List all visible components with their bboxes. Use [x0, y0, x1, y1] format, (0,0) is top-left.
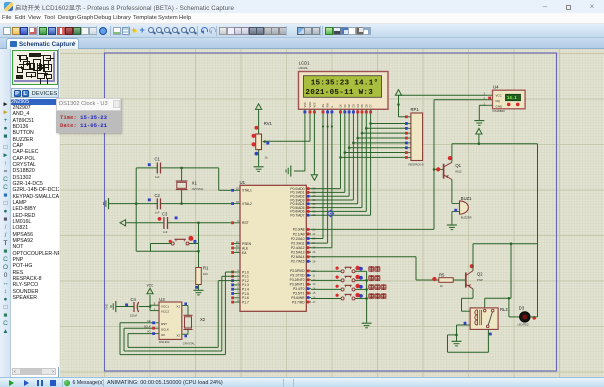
- svg-text:P2.0/A8: P2.0/A8: [293, 228, 305, 232]
- svg-text:14: 14: [312, 287, 315, 291]
- svg-text:VDD: VDD: [309, 102, 312, 107]
- svg-text:P1.7: P1.7: [242, 300, 249, 304]
- svg-text:P2.3/A11: P2.3/A11: [291, 241, 304, 245]
- U1 pin 37 P0.2: [290, 194, 316, 198]
- push button key2: [311, 275, 367, 282]
- transistor Q1 (8012 PNP): [436, 156, 462, 180]
- U1 pin 29 PSEN: [231, 240, 251, 246]
- svg-text:VEE: VEE: [314, 102, 317, 107]
- svg-text:25: 25: [312, 246, 315, 250]
- svg-text:P2.4/A12: P2.4/A12: [291, 246, 305, 250]
- svg-text:23: 23: [312, 237, 315, 241]
- crystal X1: [176, 168, 204, 204]
- svg-text:1uF: 1uF: [155, 210, 160, 214]
- wire U1 P2.6 to R5: [311, 257, 439, 280]
- svg-text:U1: U1: [240, 180, 246, 185]
- wire LCD D1 / U1 P0.1 / RP1 bus line: [311, 115, 406, 193]
- svg-text:14.1: 14.1: [507, 97, 517, 101]
- svg-text:P3.2/INT0: P3.2/INT0: [290, 278, 305, 282]
- resistor R1: [195, 265, 209, 288]
- svg-text:Q1: Q1: [455, 163, 461, 168]
- svg-text:ALE: ALE: [242, 246, 249, 250]
- svg-text:CRYSTAL: CRYSTAL: [183, 341, 196, 345]
- U1 pin 6 P1.5: [231, 290, 249, 296]
- svg-text:P2.7/A15: P2.7/A15: [291, 260, 305, 264]
- U1 pin 25 P2.4: [291, 246, 316, 250]
- wire GND to C4: [116, 306, 134, 308]
- wire Q1 collector to rail: [451, 144, 453, 163]
- svg-text:36: 36: [312, 198, 315, 202]
- svg-text:VCC1: VCC1: [161, 304, 169, 308]
- wire reset button left leg: [151, 244, 172, 252]
- svg-text:P3.5/T1: P3.5/T1: [293, 291, 305, 295]
- push button (reset): [169, 236, 197, 245]
- svg-text:18: 18: [236, 200, 239, 204]
- U1 pin 31 EA: [231, 249, 247, 255]
- svg-text:1k: 1k: [440, 284, 444, 288]
- svg-text:13: 13: [312, 282, 315, 286]
- svg-text:LED-RED: LED-RED: [518, 323, 529, 326]
- svg-text:C1: C1: [155, 156, 161, 161]
- wire relay coil to ground loop: [448, 325, 489, 352]
- wire C1 right to XTAL1: [161, 167, 234, 191]
- U1 pin 21 P2.0: [293, 227, 316, 231]
- RP1 pin 3: [405, 127, 411, 130]
- U1 pin 5 P1.4: [231, 285, 249, 291]
- U1 pin 8 P1.7: [231, 298, 249, 304]
- svg-text:22: 22: [312, 232, 315, 236]
- resistor R5: [432, 273, 453, 289]
- svg-text:X1: X1: [176, 305, 180, 309]
- crystal X2: [182, 303, 206, 346]
- svg-text:220uF: 220uF: [130, 313, 138, 317]
- U1 pin 10 P3.0: [290, 269, 316, 273]
- svg-text:100: 100: [203, 272, 208, 276]
- label key1: [369, 266, 380, 272]
- svg-text:CRYSTAL: CRYSTAL: [192, 187, 204, 191]
- U1 pin 12 P3.2: [290, 278, 316, 282]
- push button key1: [311, 266, 367, 273]
- ground (BUZ1): [447, 225, 457, 230]
- RP1 pin 2: [405, 122, 411, 125]
- svg-text:P2.1/A9: P2.1/A9: [293, 232, 305, 236]
- LED D3 (LED-RED): [518, 305, 536, 326]
- svg-text:35: 35: [312, 202, 315, 206]
- svg-text:30: 30: [236, 244, 239, 248]
- U1 pin 17 P3.7: [292, 300, 316, 304]
- RP1 pin 9: [405, 156, 411, 159]
- wire keys common vertical to ground: [365, 271, 368, 322]
- svg-text:RV1: RV1: [264, 121, 273, 126]
- wire C4 to U3 VCC pins: [139, 295, 159, 311]
- U1 pin 15 P3.5: [293, 291, 316, 295]
- RP1 pin 8: [405, 151, 411, 154]
- ground (R1): [194, 290, 204, 295]
- svg-text:15: 15: [312, 291, 315, 295]
- svg-text:C3: C3: [162, 212, 168, 217]
- wire VCC rail to U4 VCC: [399, 94, 487, 96]
- svg-text:39: 39: [312, 187, 315, 191]
- U1 pin 38 P0.1: [290, 190, 316, 194]
- svg-text:X1: X1: [192, 180, 198, 185]
- U1 pin 11 P3.1: [290, 273, 315, 277]
- wire Q2 emitter to relay coil: [462, 289, 474, 311]
- U3 pin SCLK: [144, 324, 159, 329]
- U1 pin 30 ALE: [231, 244, 249, 250]
- RP1 pin 1: [405, 115, 411, 118]
- RP1 pin 4: [405, 132, 411, 135]
- power VCC arrow (U3): [147, 284, 154, 294]
- RP1 pin 5: [405, 137, 411, 140]
- power VCC arrow above RV1: [256, 104, 262, 134]
- wire C2 right to XTAL2: [161, 202, 234, 205]
- wire LCD D2 / U1 P0.2 / RP1 bus line: [311, 115, 406, 197]
- svg-text:8012: 8012: [455, 170, 462, 174]
- svg-text:GND: GND: [105, 304, 109, 310]
- U1 pin 35 P0.4: [290, 202, 316, 206]
- potentiometer RV1: [252, 121, 273, 160]
- ground (U4): [474, 121, 484, 126]
- wire LCD RS to U1 P2.2: [311, 115, 324, 239]
- wire bottom reset rail: [136, 250, 200, 253]
- wire VCC rail (Q1 collector to D3 branch): [452, 143, 538, 145]
- U1 pin 16 P3.6: [291, 296, 316, 300]
- wire U4 DQ / U1 P2.0 / Q1 base net: [311, 100, 487, 230]
- wire C3 to U1 RST: [168, 222, 234, 225]
- svg-text:C4: C4: [131, 297, 137, 302]
- svg-text:P0.7/AD7: P0.7/AD7: [290, 214, 304, 218]
- wire LCD D0 / U1 P0.0 / RP1 bus line: [311, 115, 406, 189]
- svg-text:1uF: 1uF: [163, 230, 168, 234]
- svg-text:Q2: Q2: [477, 271, 483, 276]
- svg-text:RESPACK-8: RESPACK-8: [409, 162, 425, 166]
- svg-text:15:35:23 14.1°: 15:35:23 14.1°: [311, 79, 379, 88]
- U1 pin 36 P0.3: [290, 198, 316, 202]
- relay RL2: [464, 307, 509, 335]
- svg-text:26: 26: [312, 250, 315, 254]
- svg-text:VSS: VSS: [304, 102, 307, 107]
- ground (C4) with GND label: [105, 301, 116, 312]
- wire LCD D5 / U1 P0.5 / RP1 bus line: [311, 115, 406, 208]
- svg-text:X2: X2: [176, 334, 180, 338]
- svg-text:X2: X2: [200, 317, 206, 322]
- svg-text:P2.2/A10: P2.2/A10: [291, 237, 305, 241]
- U1 pin 7 P1.6: [231, 294, 249, 300]
- svg-text:19: 19: [236, 187, 239, 191]
- push button key3: [311, 284, 367, 291]
- wire LCD VDD to RV1 wiper: [267, 115, 311, 142]
- svg-text:28: 28: [312, 259, 315, 263]
- temperature sensor U4 (DS18B20): [484, 85, 526, 114]
- svg-text:2021-05-11 W:3: 2021-05-11 W:3: [305, 89, 373, 97]
- wire reset button right leg: [189, 223, 199, 268]
- svg-text:P3.6/WR: P3.6/WR: [291, 296, 305, 300]
- U1 pin 1 P1.0: [231, 268, 249, 274]
- ground (keys): [362, 323, 372, 328]
- microcontroller U1 (AT89C51): [240, 180, 307, 311]
- U1 pin 22 P2.1: [293, 232, 316, 236]
- svg-text:GND: GND: [496, 104, 504, 108]
- wire net SCLK / P1.1: [124, 276, 234, 351]
- svg-text:PSEN: PSEN: [242, 242, 252, 246]
- ground (relay): [452, 341, 462, 346]
- svg-text:37: 37: [312, 194, 315, 198]
- svg-text:DS18B20: DS18B20: [493, 109, 506, 113]
- svg-text:PNP: PNP: [477, 278, 483, 282]
- transistor Q2 (PNP): [466, 264, 483, 289]
- svg-text:XTAL2: XTAL2: [242, 202, 252, 206]
- U1 pin 2 P1.1: [231, 273, 249, 279]
- label key2: [369, 275, 380, 281]
- svg-text:XTAL1: XTAL1: [242, 189, 252, 193]
- U1 pin 3 P1.2: [231, 277, 249, 283]
- power terminal (LCD VEE): [311, 115, 317, 181]
- editor cursor (blue diamond): [327, 210, 334, 217]
- svg-text:1uF: 1uF: [155, 175, 160, 179]
- U1 pin 39 P0.0: [290, 187, 316, 191]
- resistor pack RP1 (RESPACK-8): [409, 107, 425, 166]
- ground (oscillator rail): [104, 198, 109, 209]
- wire left vertical rail: [135, 168, 137, 251]
- svg-text:12: 12: [312, 278, 315, 282]
- power VCC arrow (buzzer rail): [476, 128, 482, 145]
- RP1 pin 7: [405, 146, 411, 149]
- svg-text:LCD1: LCD1: [299, 61, 311, 66]
- wire D3 right to rail: [530, 144, 537, 317]
- wire R5 to Q2 base: [453, 279, 466, 281]
- svg-text:SCLK: SCLK: [144, 324, 151, 328]
- U1 pin 27 P2.6: [291, 255, 316, 259]
- wire R1 to ground: [198, 285, 200, 291]
- wire rail Q2/relay/D3: [473, 242, 538, 308]
- wire net CE / P1.0: [120, 272, 234, 355]
- U1 pin 18 XTAL2: [231, 200, 252, 206]
- svg-text:C2: C2: [155, 193, 161, 198]
- capacitor C4 (220uF): [125, 297, 138, 317]
- U1 pin 9 RST: [231, 219, 248, 225]
- svg-text:31: 31: [236, 249, 239, 253]
- svg-text:11: 11: [312, 273, 315, 277]
- svg-text:VCC: VCC: [496, 93, 503, 97]
- power VCC arrow (RP1): [395, 90, 405, 117]
- wire D3 left to relay contact: [509, 298, 520, 317]
- svg-text:R1: R1: [203, 265, 209, 270]
- svg-text:I/O: I/O: [161, 333, 166, 337]
- RTC chip U3 (DS1302): [154, 297, 182, 344]
- wire net I/O / P1.2: [128, 281, 234, 348]
- svg-text:RST: RST: [161, 322, 167, 326]
- RP1 pin 6: [405, 142, 411, 145]
- svg-text:VCC: VCC: [147, 284, 154, 288]
- svg-text:P3.7/RD: P3.7/RD: [292, 300, 305, 304]
- capacitor C2: [148, 193, 161, 214]
- svg-text:BUZZER: BUZZER: [461, 216, 472, 220]
- U1 pin 19 XTAL1: [231, 187, 252, 193]
- svg-text:P2.5/A13: P2.5/A13: [291, 251, 305, 255]
- U1 pin 13 P3.3: [290, 282, 316, 286]
- U1 pin 33 P0.6: [290, 209, 316, 213]
- power terminal (RST line): [120, 220, 164, 226]
- U1 pin 26 P2.5: [291, 250, 316, 254]
- svg-text:R5: R5: [439, 273, 445, 278]
- svg-text:1k: 1k: [265, 156, 269, 160]
- wire LCD E to U1 P2.4: [311, 115, 333, 248]
- sheet border frame: [105, 53, 557, 371]
- svg-text:D3: D3: [519, 305, 525, 310]
- svg-text:32: 32: [312, 213, 315, 217]
- U1 pin 14 P3.4: [293, 287, 316, 291]
- wire Q1 emitter to buzzer: [451, 180, 453, 204]
- svg-text:RP1: RP1: [411, 107, 420, 112]
- LCD display LCD1 (LM016L): [299, 61, 389, 115]
- push button key4: [311, 293, 367, 300]
- wire LCD D3 / U1 P0.3 / RP1 bus line: [311, 115, 406, 201]
- ground (LCD VSS): [286, 165, 291, 176]
- wire ground to C2 left: [109, 202, 158, 205]
- wire LCD D4 / U1 P0.4 / RP1 bus line: [311, 115, 406, 204]
- label key3: [369, 284, 386, 290]
- svg-text:RW: RW: [327, 103, 330, 108]
- svg-text:RL2: RL2: [500, 307, 508, 312]
- U3 pin CE: [147, 319, 159, 324]
- wire buzzer to ground: [451, 212, 453, 225]
- svg-text:38: 38: [312, 190, 315, 194]
- svg-text:P3.1/TXD: P3.1/TXD: [290, 274, 305, 278]
- wire LCD VSS to ground: [294, 115, 305, 172]
- U1 pin 28 P2.7: [291, 259, 316, 263]
- svg-text:RST: RST: [242, 221, 249, 225]
- svg-text:17: 17: [312, 300, 315, 304]
- U1 pin 23 P2.2: [291, 237, 316, 241]
- svg-text:24: 24: [312, 241, 315, 245]
- svg-text:P3.3/INT1: P3.3/INT1: [290, 283, 305, 287]
- wire U4 GND to ground: [479, 105, 486, 120]
- svg-text:P2.6/A14: P2.6/A14: [291, 255, 305, 259]
- svg-text:DQ: DQ: [496, 99, 501, 103]
- capacitor C1: [148, 156, 161, 179]
- U1 pin 24 P2.3: [291, 241, 316, 245]
- svg-text:34: 34: [312, 206, 315, 210]
- svg-text:DS1302: DS1302: [159, 340, 170, 344]
- svg-text:SCLK: SCLK: [161, 328, 169, 332]
- wire LCD D7 / U1 P0.7 / RP1 bus line: [311, 115, 406, 216]
- wire LCD RW to U1 P2.3: [311, 115, 329, 244]
- wire RV1 to ground: [258, 150, 260, 167]
- svg-text:RS: RS: [322, 104, 325, 108]
- svg-text:P3.4/T0: P3.4/T0: [293, 287, 305, 291]
- svg-text:U4: U4: [493, 85, 499, 90]
- svg-text:LM016L: LM016L: [299, 66, 309, 70]
- U1 pin 32 P0.7: [290, 213, 316, 217]
- svg-text:VCC2: VCC2: [161, 310, 169, 314]
- U1 pin 4 P1.3: [231, 281, 249, 287]
- wire LCD D6 / U1 P0.6 / RP1 bus line: [311, 115, 406, 212]
- U1 pin 34 P0.5: [290, 206, 316, 210]
- svg-text:29: 29: [236, 240, 239, 244]
- wire C1 left to rail: [136, 167, 157, 169]
- buzzer BUZ1: [452, 196, 472, 219]
- U3 pin I/O: [147, 330, 159, 335]
- capacitor C3: [158, 212, 178, 234]
- wire Q2 collector to rail: [472, 244, 474, 271]
- ground (RV1): [254, 167, 264, 172]
- label key4: [369, 293, 386, 299]
- svg-text:P3.0/RXD: P3.0/RXD: [290, 269, 305, 273]
- svg-text:BUZ1: BUZ1: [461, 196, 472, 201]
- svg-text:33: 33: [312, 209, 315, 213]
